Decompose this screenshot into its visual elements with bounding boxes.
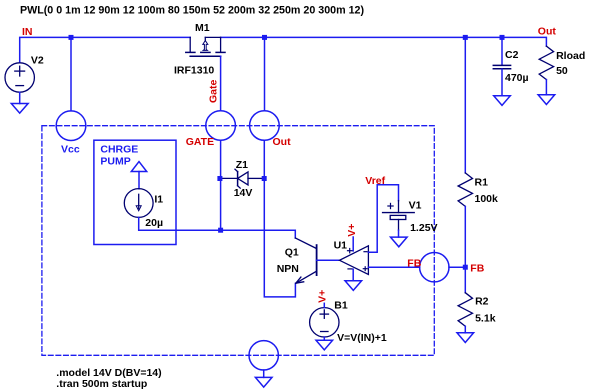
- charge pump block box: [94, 140, 176, 244]
- wire rail to Out port circle: [264, 37, 266, 110]
- svg-text:R2: R2: [475, 296, 489, 308]
- zener diode Z1: [223, 169, 262, 188]
- svg-text:Gate: Gate: [208, 79, 220, 103]
- ground below opamp: [345, 281, 362, 291]
- op-amp U1: [340, 246, 369, 275]
- svg-text:Out: Out: [538, 26, 557, 38]
- behavioral source B1: [310, 308, 339, 337]
- svg-text:NPN: NPN: [277, 263, 299, 275]
- junction on rail at Vcc branch: [69, 35, 74, 40]
- wire rail to R1: [464, 37, 466, 173]
- svg-text:PWL(0 0 1m 12 90m 12 100m 80 1: PWL(0 0 1m 12 90m 12 100m 80 150m 52 200…: [20, 5, 364, 17]
- wire top rail right from M1 source to Rload: [221, 37, 547, 46]
- svg-text:V=V(IN)+1: V=V(IN)+1: [337, 332, 387, 344]
- ground below bottom port circle: [255, 377, 272, 387]
- wire GATE circle down through Z1 node to pump wire: [220, 140, 222, 230]
- wire V2 to ground: [19, 92, 21, 103]
- svg-text:50: 50: [556, 65, 568, 77]
- svg-text:20µ: 20µ: [145, 217, 163, 229]
- svg-text:I1: I1: [154, 194, 163, 206]
- junction GATE net at pump wire: [218, 228, 223, 233]
- wire opamp output to Q1 base: [317, 259, 340, 261]
- wire R1 to FB to R2: [464, 206, 466, 292]
- svg-text:V1: V1: [409, 199, 422, 211]
- wire B1 top stub to V+: [323, 303, 325, 307]
- wire arrow to I1: [138, 172, 140, 189]
- svg-text:5.1k: 5.1k: [475, 312, 496, 324]
- wire opamp V- supply stub: [352, 269, 354, 281]
- svg-text:CHRGE: CHRGE: [100, 144, 138, 156]
- wire opamp noninverting input to FB circle: [368, 266, 419, 268]
- port circle Vcc: [56, 111, 86, 141]
- dashed subcircuit boundary box: [42, 126, 434, 356]
- resistor R2: [458, 293, 472, 327]
- svg-text:Vcc: Vcc: [61, 144, 80, 156]
- ground below V1: [391, 237, 408, 247]
- ground below R2: [457, 333, 474, 343]
- transistor Q1 NPN: [295, 238, 316, 283]
- wire V1 to ground: [398, 230, 400, 237]
- svg-text:Q1: Q1: [285, 247, 299, 259]
- junction on rail at Out branch: [262, 35, 267, 40]
- wire opamp inverting input to Vref and V1: [368, 185, 398, 252]
- capacitor C2: [493, 65, 510, 68]
- svg-text:V+: V+: [346, 224, 358, 237]
- transistor M1 NMOS IRF1310: [186, 37, 225, 56]
- svg-text:R1: R1: [475, 176, 489, 188]
- svg-text:B1: B1: [334, 299, 348, 311]
- ground below Rload: [538, 95, 555, 105]
- svg-text:GATE: GATE: [186, 136, 214, 148]
- svg-text:V+: V+: [317, 290, 329, 303]
- wire R2 to ground: [464, 326, 466, 333]
- svg-text:1.25V: 1.25V: [410, 222, 437, 234]
- ground below C2: [494, 96, 511, 106]
- wire Rload to ground: [545, 80, 547, 95]
- svg-text:Out: Out: [273, 136, 292, 148]
- junction on rail at R1 branch: [463, 35, 468, 40]
- svg-text:Z1: Z1: [236, 159, 248, 171]
- svg-text:Rload: Rload: [556, 50, 585, 62]
- svg-text:14V: 14V: [234, 187, 253, 199]
- junction Z1 anode on Out net: [262, 176, 267, 181]
- svg-text:V2: V2: [31, 55, 44, 67]
- wire FB circle to FB junction: [449, 266, 465, 268]
- wire B1 to ground: [323, 337, 325, 340]
- wire opamp V+ supply stub: [352, 237, 354, 251]
- ground below V2: [11, 104, 28, 114]
- wire rail to Vcc port circle: [70, 37, 72, 110]
- voltage source V1 battery: [383, 201, 415, 231]
- svg-text:U1: U1: [334, 239, 348, 251]
- resistor R1: [458, 173, 472, 207]
- ground below B1: [316, 340, 333, 350]
- svg-text:PUMP: PUMP: [100, 156, 130, 168]
- port circle GATE: [206, 111, 236, 141]
- port circle bottom ground pin: [249, 341, 278, 370]
- svg-text:FB: FB: [470, 263, 484, 275]
- svg-text:C2: C2: [505, 49, 519, 61]
- wire bottom port circle to ground: [263, 370, 265, 377]
- junction on rail at C2 branch: [500, 35, 505, 40]
- wire rail to C2: [501, 37, 503, 64]
- svg-text:IRF1310: IRF1310: [174, 64, 214, 76]
- junction Z1 cathode on GATE net: [217, 176, 222, 181]
- svg-text:100k: 100k: [475, 193, 499, 205]
- charge pump up arrow: [131, 162, 146, 172]
- voltage source V2: [5, 63, 34, 92]
- wire top rail left from V2 to M1 drain: [20, 37, 191, 62]
- svg-text:M1: M1: [195, 22, 210, 34]
- svg-text:.tran 500m startup: .tran 500m startup: [56, 378, 147, 390]
- svg-text:IN: IN: [22, 26, 33, 38]
- port circle FB: [420, 253, 449, 282]
- wire Out circle down to Q1 emitter: [264, 140, 295, 297]
- wire I1 to GATE net and Q1 collector: [139, 217, 296, 238]
- svg-text:470µ: 470µ: [505, 72, 529, 84]
- port circle Out: [250, 111, 280, 141]
- junction FB node: [463, 265, 468, 270]
- wire M1 gate down to GATE port: [220, 56, 222, 110]
- svg-text:Vref: Vref: [365, 175, 385, 187]
- resistor Rload: [539, 46, 553, 80]
- wire C2 to ground: [501, 69, 503, 96]
- current source I1: [124, 189, 153, 218]
